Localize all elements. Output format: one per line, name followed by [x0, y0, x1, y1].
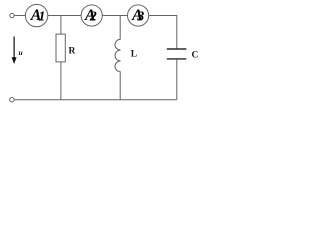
- svg-text:2: 2: [89, 9, 97, 24]
- wire inductor L to bottom rail: [119, 72, 121, 100]
- bottom rail wire: [14, 99, 177, 101]
- wire A1 to A2: [48, 15, 81, 17]
- wire resistor R to bottom rail: [60, 62, 62, 100]
- svg-text:1: 1: [38, 9, 45, 24]
- ammeter A2: [81, 5, 102, 26]
- wire terminal to A1: [14, 15, 25, 17]
- wire top rail to resistor R: [60, 16, 62, 35]
- wire A3 to capacitor top: [149, 16, 177, 49]
- ammeter A3: [128, 5, 149, 26]
- wire A2 to A3: [102, 15, 127, 17]
- capacitor C top plate: [167, 48, 187, 50]
- wire top rail to inductor L: [119, 16, 121, 40]
- inductor L: [115, 39, 121, 71]
- svg-text:3: 3: [136, 9, 144, 24]
- voltage u arrow: [12, 37, 17, 65]
- svg-text:L: L: [131, 50, 137, 60]
- svg-text:R: R: [69, 46, 76, 56]
- ammeter A1: [25, 4, 47, 26]
- terminal (bottom-left input): [10, 98, 14, 102]
- resistor R: [56, 34, 65, 62]
- svg-text:C: C: [192, 51, 199, 61]
- wire capacitor C to bottom rail: [176, 60, 178, 100]
- capacitor C bottom plate: [167, 58, 187, 60]
- terminal (top-left input): [10, 13, 14, 17]
- svg-text:u: u: [19, 48, 23, 57]
